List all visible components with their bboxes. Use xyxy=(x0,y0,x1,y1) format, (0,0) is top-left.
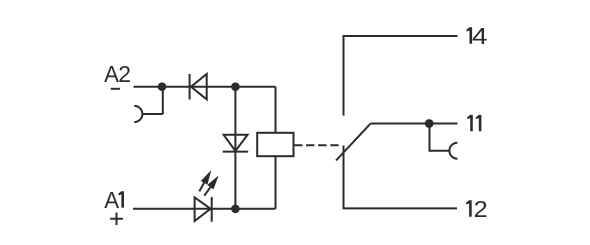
wire clamp to A2 node xyxy=(142,87,162,114)
minus polarity mark xyxy=(111,88,120,90)
LED triangle xyxy=(195,197,211,221)
terminal label 14 xyxy=(467,23,488,49)
diode on A2 line triangle xyxy=(191,74,207,99)
wire terminal 11 xyxy=(371,123,458,125)
wire 11 node to clamp xyxy=(430,124,450,151)
LED emission arrow 1 xyxy=(199,174,209,192)
changeover contact blade xyxy=(336,124,371,161)
svg-text:2: 2 xyxy=(474,196,488,222)
suppression diode cathode bar xyxy=(223,151,249,153)
svg-text:2: 2 xyxy=(118,61,131,87)
relay coil xyxy=(257,133,293,156)
wire A2 horizontal xyxy=(134,86,236,88)
terminal label 11 xyxy=(467,115,481,131)
diode on A2 line cathode bar xyxy=(189,74,191,100)
wire coil branch lower xyxy=(275,156,277,209)
wire A1 horizontal xyxy=(133,208,276,210)
node junction bottom center xyxy=(231,205,240,214)
wire terminal 14 xyxy=(344,36,458,116)
suppression diode triangle xyxy=(224,135,248,151)
node junction top center xyxy=(231,82,240,91)
LED cathode bar xyxy=(211,197,213,222)
svg-text:A: A xyxy=(104,187,119,213)
wire coil branch upper xyxy=(275,87,277,133)
terminal label 12 xyxy=(466,196,488,222)
plus polarity mark xyxy=(110,213,123,226)
wire top to coil branch xyxy=(235,86,275,88)
dashed actuator link xyxy=(294,144,339,146)
clamp contact hook 11 xyxy=(449,143,457,159)
wire terminal 12 xyxy=(344,146,458,209)
wire left branch vertical xyxy=(234,87,236,209)
terminal label A1 xyxy=(104,187,124,213)
LED emission arrow 2 xyxy=(204,179,216,196)
clamp contact hook A2 xyxy=(134,106,142,122)
node junction on 11 wire xyxy=(425,119,434,128)
terminal label A2 xyxy=(104,61,131,87)
node junction on A2 wire xyxy=(158,82,167,91)
svg-text:4: 4 xyxy=(472,23,488,49)
